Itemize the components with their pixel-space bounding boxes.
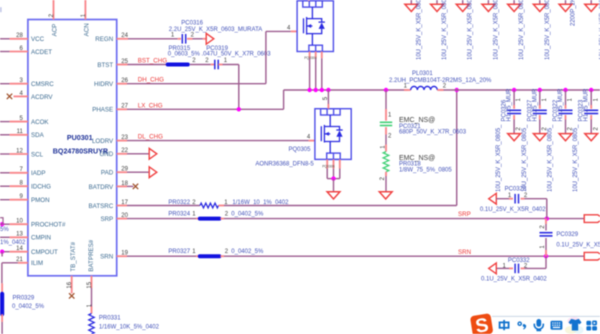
- svg-text:10U_25V_K_X5R_0805_: 10U_25V_K_X5R_0805_: [545, 0, 551, 60]
- capacitor PC0326: [512, 88, 516, 92]
- svg-text:10U_25V_K_X5R_0805_: 10U_25V_K_X5R_0805_: [493, 0, 499, 60]
- transistor Q2 PQ0305 low-side FET: [315, 109, 351, 160]
- svg-text:H1.25_MUR: H1.25_MUR: [558, 88, 564, 122]
- svg-text:1%_0402: 1%_0402: [0, 240, 26, 246]
- wire LX up to rail: [283, 90, 285, 109]
- svg-text:ILIM: ILIM: [31, 260, 43, 267]
- svg-text:10U_25V_K_X5R_0805_: 10U_25V_K_X5R_0805_: [496, 124, 502, 192]
- wire PAD pin 29: [117, 171, 127, 173]
- resistor PR0329 (0 ohm): [0, 294, 4, 314]
- ground top cap 8: [585, 4, 598, 11]
- resistor PR0327 (0 ohm): [200, 254, 220, 258]
- svg-text:GND: GND: [99, 151, 113, 158]
- ground top cap 3: [456, 4, 469, 11]
- svg-text:0.1U_25V_K_X5R_0402: 0.1U_25V_K_X5R_0402: [556, 242, 600, 248]
- svg-text:SRN: SRN: [458, 249, 471, 256]
- svg-text:CMSRC: CMSRC: [31, 81, 54, 88]
- wire upper FET source pins down to rail: [309, 52, 311, 59]
- cut-off label fragment top-left: [0, 7, 2, 12]
- capacitor bank column 1 (top, ground symbol): [410, 0, 412, 4]
- icon keyboard: [551, 321, 563, 330]
- no-connect on BATDRV: [133, 184, 138, 189]
- capacitor PC0322: [563, 88, 567, 92]
- capacitor bank column 2 (top, ground symbol): [436, 0, 438, 4]
- junction src1/rail: [307, 88, 311, 92]
- svg-text:IADP: IADP: [31, 170, 45, 177]
- pin 16 TB_STAT#: [71, 276, 73, 294]
- icon punctuation: [518, 322, 521, 325]
- pin 6 ACDET: [0, 51, 10, 53]
- offpage port PAD: [149, 167, 157, 178]
- pin 1 ACN: [84, 0, 86, 20]
- svg-text:10U_25V_K_X5R_0805_: 10U_25V_K_X5R_0805_: [519, 0, 525, 60]
- ground top cap 7: [559, 4, 572, 11]
- capacitor PC0319: [211, 64, 215, 66]
- transistor Q1 upper high-side FET: [297, 1, 333, 52]
- wire GND pin 22: [117, 153, 127, 155]
- svg-text:PR0331: PR0331: [99, 316, 121, 322]
- arrow port PC0332 left: [489, 263, 497, 274]
- capacitor PC0327: [538, 88, 542, 92]
- svg-text:AONR36368_DFN8-5: AONR36368_DFN8-5: [255, 161, 314, 167]
- svg-text:14: 14: [16, 246, 23, 252]
- svg-text:10U_25V_K_X5R_0805_: 10U_25V_K_X5R_0805_: [442, 0, 448, 60]
- svg-text:CMPIN: CMPIN: [31, 235, 51, 242]
- ground top cap 6: [533, 4, 546, 11]
- svg-text:0.1U_25V_K_X5R_0402: 0.1U_25V_K_X5R_0402: [481, 277, 547, 283]
- svg-text:10: 10: [16, 219, 23, 225]
- capacitor PC0316: [181, 34, 183, 44]
- svg-text:SRP: SRP: [458, 211, 471, 218]
- junction BATSRC riser/rail: [455, 88, 459, 92]
- capacitor PC0329: [545, 219, 547, 224]
- svg-text:680P_50V_K_X7R_0603: 680P_50V_K_X7R_0603: [399, 130, 467, 136]
- svg-text:CMPOUT: CMPOUT: [31, 249, 58, 256]
- svg-text:SRP: SRP: [100, 216, 113, 223]
- pin 28 VCC: [0, 38, 10, 40]
- ground PC0323: [585, 134, 598, 141]
- node LX_CHG net: [117, 108, 127, 110]
- pin 14 CMPOUT: [0, 251, 10, 253]
- ground PC0327: [533, 134, 546, 141]
- pin 3 CMSRC: [0, 83, 10, 85]
- node on CMPOUT wire: [0, 250, 4, 254]
- svg-text:PR0329: PR0329: [13, 296, 35, 302]
- resistor PR0331: [89, 314, 94, 334]
- capacitor PC0323: [589, 88, 593, 92]
- svg-text:BATDRV: BATDRV: [89, 184, 114, 191]
- junction source merge: [331, 176, 335, 180]
- node PC0332 branch: [545, 256, 547, 268]
- junction src2/rail: [314, 88, 318, 92]
- svg-text:H1.25_MUR: H1.25_MUR: [584, 88, 590, 122]
- svg-text:0.1U_25V_K_X5R_0402: 0.1U_25V_K_X5R_0402: [480, 207, 546, 213]
- svg-text:PL0301: PL0301: [412, 71, 433, 77]
- node BATSRC net: [117, 205, 127, 207]
- ground top cap 1: [405, 4, 418, 11]
- resistor PR0315 (0 ohm): [168, 63, 188, 67]
- icon microphone: [534, 319, 545, 331]
- pin 12 SCL: [0, 153, 10, 155]
- svg-text:LODRV: LODRV: [92, 138, 114, 145]
- pin 7 IADP: [0, 172, 10, 174]
- svg-text:BTST: BTST: [97, 62, 113, 69]
- offpage port PGND: [149, 148, 157, 159]
- svg-text:21: 21: [16, 257, 23, 263]
- svg-text:LX_CHG: LX_CHG: [138, 102, 163, 109]
- ground PC0326: [508, 134, 521, 141]
- svg-text:10U_25V_K_X5R_0805_: 10U_25V_K_X5R_0805_: [468, 0, 474, 60]
- pin 8 IDCHG: [0, 185, 10, 187]
- node SRP net: [117, 218, 127, 220]
- svg-text:ACP: ACP: [51, 24, 58, 37]
- junction SRP/PC0329: [545, 216, 549, 220]
- svg-text:10U_25V_K_X5R_0805_: 10U_25V_K_X5R_0805_: [522, 124, 528, 192]
- svg-text:15: 15: [87, 281, 93, 288]
- resistor (cut off) at left edge above PROCHOT#: [0, 218, 3, 225]
- svg-text:PU0301: PU0301: [67, 134, 93, 142]
- svg-text:IDCHG: IDCHG: [31, 184, 51, 191]
- svg-text:PR0322: PR0322: [168, 200, 190, 206]
- capacitor bank column 6 (top, ground symbol): [539, 0, 541, 4]
- pin 15 BATPRES#: [91, 276, 93, 288]
- wire ILIM down: [1, 263, 3, 284]
- capacitor bank column 8 (top, ground symbol): [590, 0, 592, 4]
- port SRP right: [584, 215, 600, 223]
- capacitor bank column 5 (top, ground symbol): [513, 0, 515, 4]
- svg-text:H1.25_MUR: H1.25_MUR: [507, 88, 513, 122]
- svg-text:13: 13: [16, 232, 23, 238]
- inductor PL0301: [404, 89, 411, 91]
- node REGN net: [117, 38, 128, 40]
- svg-text:DL_CHG: DL_CHG: [138, 134, 163, 141]
- svg-text:BST_CHG: BST_CHG: [138, 57, 167, 64]
- svg-text:PAD: PAD: [101, 170, 114, 177]
- node DL_CHG net: [117, 140, 127, 142]
- svg-text:BATPRES#: BATPRES#: [88, 239, 95, 271]
- svg-text:PQ0306: PQ0306: [322, 164, 335, 168]
- capacitor bank column 7 (top, ground symbol): [565, 0, 567, 4]
- svg-text:2200P_2KV_K_X7R: 2200P_2KV_K_X7R: [571, 0, 577, 26]
- svg-text:SCL: SCL: [31, 151, 44, 158]
- svg-text:VCC: VCC: [31, 36, 45, 43]
- resistor PR0318 (EMC_NS): [383, 152, 389, 172]
- node BST_CHG net: [117, 64, 128, 66]
- svg-text:1/8W_75_5%_0805: 1/8W_75_5%_0805: [399, 167, 452, 173]
- junction BTST/LX: [237, 107, 241, 111]
- svg-text:PC0329: PC0329: [556, 232, 578, 238]
- wire BTST down to LX: [238, 65, 240, 110]
- pin 5 ACOK: [0, 121, 10, 123]
- capacitor bank column 4 (top, ground symbol): [487, 0, 489, 4]
- no-connect on TB_STAT#: [69, 293, 74, 298]
- svg-text:H1.25_MUR: H1.25_MUR: [532, 88, 538, 122]
- pin 11 SDA: [0, 134, 10, 136]
- svg-text:PMON: PMON: [31, 197, 50, 204]
- resistor PR0322: [200, 203, 219, 208]
- capacitor PC0321 (EMC_NS): [380, 121, 392, 123]
- pin 9 PMON: [0, 199, 10, 201]
- svg-text:11: 11: [17, 129, 24, 135]
- svg-text:0_0402_5%: 0_0402_5%: [12, 304, 45, 310]
- svg-text:ACDET: ACDET: [31, 49, 52, 56]
- taskbar divider line: [492, 315, 600, 317]
- port SRN right: [584, 252, 600, 260]
- svg-text:PC0316: PC0316: [181, 21, 203, 27]
- node DH_CHG net: [117, 83, 127, 85]
- svg-text:1/16W_10K_5%_0402: 1/16W_10K_5%_0402: [99, 325, 160, 331]
- pin 4 ACDRV: [14, 95, 28, 97]
- icon t-shirt (skin): [568, 317, 581, 325]
- node SRN net: [117, 255, 127, 257]
- junction PC0321 branch/rail: [384, 88, 388, 92]
- arrow port PC0328 left: [489, 193, 497, 204]
- pin 13 CMPIN: [0, 236, 10, 238]
- svg-text:28: 28: [16, 33, 23, 39]
- svg-text:0_0603_5%: 0_0603_5%: [168, 51, 201, 57]
- svg-text:10U_25V_K_X5R_0805_: 10U_25V_K_X5R_0805_: [416, 0, 422, 60]
- svg-text:PROCHOT#: PROCHOT#: [31, 222, 66, 229]
- component stub (cut off) below CMPOUT: [1, 252, 3, 257]
- svg-text:16: 16: [67, 281, 73, 288]
- svg-text:ACN: ACN: [83, 23, 90, 36]
- svg-text:DH_CHG: DH_CHG: [138, 77, 164, 84]
- wire BATSRC up to rail: [456, 90, 458, 206]
- pin 2 ACP: [53, 0, 55, 20]
- pin 10 PROCHOT#: [0, 223, 10, 225]
- svg-text:10U_25V_K_X5R_0805_: 10U_25V_K_X5R_0805_: [573, 124, 579, 192]
- svg-text:0_0402_5%: 0_0402_5%: [231, 212, 264, 218]
- Sogou logo: [470, 313, 494, 334]
- ground top cap 2: [431, 4, 444, 11]
- svg-text:PHASE: PHASE: [92, 107, 113, 114]
- svg-text:PQ0305: PQ0305: [288, 147, 311, 153]
- svg-text:2.2U_25V_K_X5R_0603_MURATA: 2.2U_25V_K_X5R_0603_MURATA: [169, 27, 262, 33]
- svg-text:SRN: SRN: [100, 254, 113, 261]
- icon 中 (chinese mode): [500, 320, 509, 330]
- resistor PR0324 (0 ohm): [200, 217, 220, 221]
- capacitor PC0328: [514, 194, 516, 204]
- svg-text:BATSRC: BATSRC: [89, 203, 114, 210]
- node on PROCHOT# wire: [0, 222, 4, 226]
- svg-text:ACDRV: ACDRV: [31, 94, 53, 101]
- svg-text:TB_STAT#: TB_STAT#: [70, 241, 77, 271]
- icon grid (apps): [586, 321, 597, 331]
- capacitor PC0332: [514, 264, 516, 274]
- svg-text:ACOK: ACOK: [31, 119, 49, 126]
- IC PU0301 BQ24780SRUYR battery charger: [28, 20, 117, 276]
- svg-text:10U_25V_K_X5R_0805_: 10U_25V_K_X5R_0805_: [548, 124, 554, 192]
- svg-text:5%: 5%: [0, 227, 9, 233]
- svg-text:.047U_50V_K_X7R_0603: .047U_50V_K_X7R_0603: [202, 51, 272, 57]
- svg-text:PR0324: PR0324: [168, 212, 190, 218]
- svg-text:12: 12: [16, 148, 23, 154]
- offpage port REGN: [206, 33, 214, 44]
- capacitor bank column 3 (top, ground symbol): [462, 0, 464, 4]
- svg-text:PQ0304: PQ0304: [304, 56, 317, 60]
- junction drain/rail: [326, 88, 330, 92]
- ground top cap 5: [508, 4, 521, 11]
- ground top cap 4: [482, 4, 495, 11]
- svg-text:PR0327: PR0327: [168, 249, 190, 255]
- wire main switch/battery rail: [284, 89, 408, 91]
- ground PC0322: [559, 134, 572, 141]
- svg-text:0_0402_5%: 0_0402_5%: [231, 249, 264, 255]
- wire DH to upper FET gate: [265, 31, 267, 83]
- no-connect on ACDRV: [7, 94, 12, 99]
- ground EMC branch: [379, 192, 392, 199]
- ground lower FET source: [327, 192, 340, 199]
- svg-text:2.2UH_PCMB104T-2R2MS_12A_20%: 2.2UH_PCMB104T-2R2MS_12A_20%: [389, 78, 492, 84]
- svg-text:REGN: REGN: [95, 36, 113, 43]
- wire upper FET drain tick: [308, 0, 310, 2]
- svg-text:HIDRV: HIDRV: [94, 81, 114, 88]
- wire BATDRV pin 18: [117, 185, 127, 187]
- pin 21 ILIM: [18, 262, 28, 264]
- junction SRN/PC0329: [544, 254, 548, 258]
- wire lower FET source pins down to ground: [326, 159, 328, 168]
- junction src3/rail: [320, 88, 324, 92]
- svg-text:SDA: SDA: [31, 132, 45, 139]
